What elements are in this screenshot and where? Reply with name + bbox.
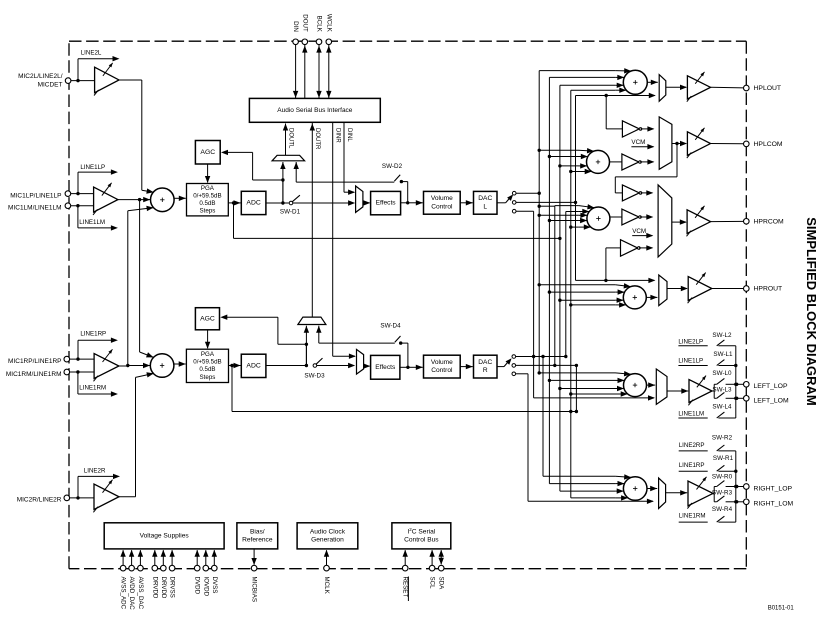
svg-text:DINL: DINL bbox=[346, 128, 352, 142]
svg-text:WCLK: WCLK bbox=[325, 14, 332, 33]
svg-text:HPLOUT: HPLOUT bbox=[754, 85, 782, 92]
svg-text:BCLK: BCLK bbox=[316, 16, 323, 33]
svg-text:Steps: Steps bbox=[199, 208, 215, 215]
svg-text:SW-D1: SW-D1 bbox=[280, 209, 301, 216]
svg-text:IOVDD: IOVDD bbox=[202, 577, 209, 597]
svg-text:0/+59.5dB: 0/+59.5dB bbox=[193, 359, 221, 366]
svg-text:ADC: ADC bbox=[246, 199, 260, 206]
svg-text:SDA: SDA bbox=[438, 577, 445, 591]
svg-text:DOUTL: DOUTL bbox=[287, 128, 293, 149]
svg-text:PGA: PGA bbox=[201, 185, 215, 192]
svg-text:LINE1RP: LINE1RP bbox=[679, 462, 705, 469]
svg-text:I2C Serial: I2C Serial bbox=[407, 527, 435, 536]
svg-text:DOUTR: DOUTR bbox=[314, 128, 320, 150]
svg-text:SIMPLIFIED BLOCK DIAGRAM: SIMPLIFIED BLOCK DIAGRAM bbox=[804, 217, 819, 406]
svg-text:Voltage Supplies: Voltage Supplies bbox=[140, 532, 190, 539]
svg-text:Control Bus: Control Bus bbox=[404, 536, 439, 543]
svg-text:MIC1RP/LINE1RP: MIC1RP/LINE1RP bbox=[8, 358, 61, 365]
svg-text:SW-R3: SW-R3 bbox=[712, 490, 733, 497]
svg-text:LINE1LM: LINE1LM bbox=[678, 411, 704, 418]
svg-text:Audio Serial Bus Interface: Audio Serial Bus Interface bbox=[277, 107, 353, 114]
svg-text:MIC1LP/LINE1LP: MIC1LP/LINE1LP bbox=[10, 192, 61, 199]
svg-text:Reference: Reference bbox=[242, 536, 273, 543]
svg-text:RIGHT_LOM: RIGHT_LOM bbox=[754, 501, 794, 508]
svg-text:R: R bbox=[483, 367, 488, 374]
svg-text:Control: Control bbox=[431, 203, 453, 210]
svg-text:LINE1LM: LINE1LM bbox=[79, 219, 105, 226]
svg-text:L: L bbox=[483, 203, 487, 210]
svg-text:RESET: RESET bbox=[402, 577, 409, 598]
svg-text:DVDD: DVDD bbox=[194, 577, 201, 595]
svg-text:Audio Clock: Audio Clock bbox=[310, 528, 346, 535]
svg-text:LINE1RM: LINE1RM bbox=[679, 513, 706, 520]
svg-text:SCL: SCL bbox=[429, 577, 436, 590]
svg-text:DRVSS: DRVSS bbox=[169, 577, 176, 598]
svg-text:MCLK: MCLK bbox=[323, 577, 330, 595]
svg-text:PGA: PGA bbox=[201, 351, 215, 358]
svg-text:Effects: Effects bbox=[375, 364, 396, 371]
svg-text:SW-R4: SW-R4 bbox=[712, 506, 733, 513]
svg-text:DINR: DINR bbox=[335, 128, 341, 143]
svg-text:ADC: ADC bbox=[246, 362, 260, 369]
svg-text:HPROUT: HPROUT bbox=[754, 285, 783, 292]
svg-text:MIC1RM/LINE1RM: MIC1RM/LINE1RM bbox=[6, 371, 62, 378]
svg-text:HPRCOM: HPRCOM bbox=[754, 218, 785, 225]
svg-text:SW-R1: SW-R1 bbox=[713, 455, 734, 462]
svg-text:SW-R0: SW-R0 bbox=[712, 474, 733, 481]
svg-text:0.5dB: 0.5dB bbox=[199, 366, 215, 373]
svg-text:DIN: DIN bbox=[292, 21, 299, 32]
svg-text:SW-R2: SW-R2 bbox=[712, 435, 733, 442]
svg-text:AGC: AGC bbox=[200, 149, 215, 156]
svg-text:MICBIAS: MICBIAS bbox=[251, 577, 258, 602]
svg-text:Volume: Volume bbox=[431, 359, 453, 366]
svg-text:LEFT_LOM: LEFT_LOM bbox=[754, 397, 789, 404]
svg-text:SW-D4: SW-D4 bbox=[380, 323, 401, 330]
svg-text:DVSS: DVSS bbox=[211, 577, 218, 594]
svg-text:VCM: VCM bbox=[632, 228, 646, 235]
svg-text:DAC: DAC bbox=[478, 195, 492, 202]
svg-text:SW-L3: SW-L3 bbox=[712, 386, 732, 393]
svg-text:AGC: AGC bbox=[200, 315, 215, 322]
svg-text:SW-D2: SW-D2 bbox=[382, 163, 403, 170]
svg-text:SW-L2: SW-L2 bbox=[712, 332, 732, 339]
svg-text:DRVDD: DRVDD bbox=[160, 577, 167, 599]
svg-text:RIGHT_LOP: RIGHT_LOP bbox=[754, 485, 793, 492]
svg-text:Control: Control bbox=[431, 367, 453, 374]
svg-text:Steps: Steps bbox=[200, 374, 216, 381]
svg-text:LINE1RP: LINE1RP bbox=[80, 331, 106, 338]
svg-text:DOUT: DOUT bbox=[301, 14, 308, 32]
svg-text:Effects: Effects bbox=[376, 200, 397, 207]
svg-text:LINE1LP: LINE1LP bbox=[678, 358, 703, 365]
svg-text:SW-L0: SW-L0 bbox=[712, 370, 732, 377]
svg-text:0.5dB: 0.5dB bbox=[199, 200, 215, 207]
svg-text:SW-D3: SW-D3 bbox=[304, 373, 325, 380]
svg-text:MIC2R/LINE2R: MIC2R/LINE2R bbox=[17, 497, 62, 504]
svg-text:Generation: Generation bbox=[311, 536, 344, 543]
svg-text:AVDD_DAC: AVDD_DAC bbox=[128, 577, 135, 611]
svg-text:AVSS_DAC: AVSS_DAC bbox=[137, 577, 144, 610]
svg-text:AVSS_ADC: AVSS_ADC bbox=[120, 577, 127, 610]
svg-text:LEFT_LOP: LEFT_LOP bbox=[754, 383, 788, 390]
svg-text:Volume: Volume bbox=[431, 195, 453, 202]
svg-text:VCM: VCM bbox=[631, 139, 645, 146]
svg-text:LINE1RM: LINE1RM bbox=[79, 385, 106, 392]
svg-text:LINE1LP: LINE1LP bbox=[80, 164, 105, 171]
svg-text:DAC: DAC bbox=[478, 359, 492, 366]
svg-text:SW-L4: SW-L4 bbox=[712, 404, 732, 411]
svg-text:MICDET: MICDET bbox=[38, 81, 63, 88]
svg-text:Bias/: Bias/ bbox=[250, 528, 265, 535]
svg-text:LINE2LP: LINE2LP bbox=[678, 339, 703, 346]
svg-text:HPLCOM: HPLCOM bbox=[754, 141, 783, 148]
svg-text:B0151-01: B0151-01 bbox=[768, 606, 795, 612]
svg-text:DRVDD: DRVDD bbox=[151, 577, 158, 599]
svg-text:LINE2L: LINE2L bbox=[81, 50, 102, 57]
svg-text:MIC2L/LINE2L/: MIC2L/LINE2L/ bbox=[18, 73, 63, 80]
svg-text:LINE2RP: LINE2RP bbox=[679, 442, 705, 449]
svg-text:MIC1LM/LINE1LM: MIC1LM/LINE1LM bbox=[8, 205, 61, 212]
svg-text:LINE2R: LINE2R bbox=[84, 467, 106, 474]
svg-text:SW-L1: SW-L1 bbox=[713, 351, 733, 358]
svg-text:0/+59.5dB: 0/+59.5dB bbox=[193, 192, 221, 199]
